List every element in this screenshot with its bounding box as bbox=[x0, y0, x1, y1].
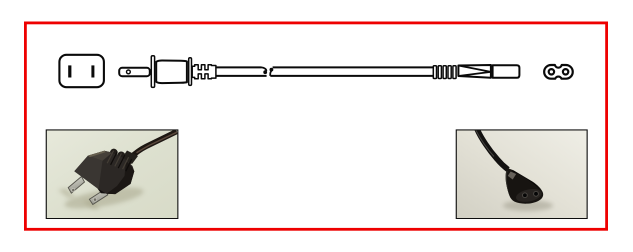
cord segment left bbox=[214, 67, 267, 76]
connector C7 strain relief ribs bbox=[433, 66, 456, 79]
photo right frame bbox=[457, 130, 587, 218]
plug P1 left flange bbox=[151, 56, 154, 88]
photo right C7 photograph bbox=[457, 129, 587, 218]
photo left plug photograph bbox=[47, 130, 178, 218]
connector C7 head bbox=[493, 65, 520, 78]
C7 face symbol bbox=[544, 65, 573, 79]
photo left frame bbox=[47, 130, 178, 218]
cord break mark bbox=[262, 67, 274, 76]
cord segment right bbox=[270, 67, 436, 76]
plug P1 blade bbox=[119, 68, 150, 76]
plug P1 strain relief bbox=[192, 65, 216, 79]
plug P1 right flange bbox=[189, 58, 192, 86]
outlet symbol NEMA 1-15R bbox=[59, 55, 104, 87]
plug P1 body bbox=[156, 61, 187, 84]
connector C7 molded body bbox=[458, 65, 491, 78]
